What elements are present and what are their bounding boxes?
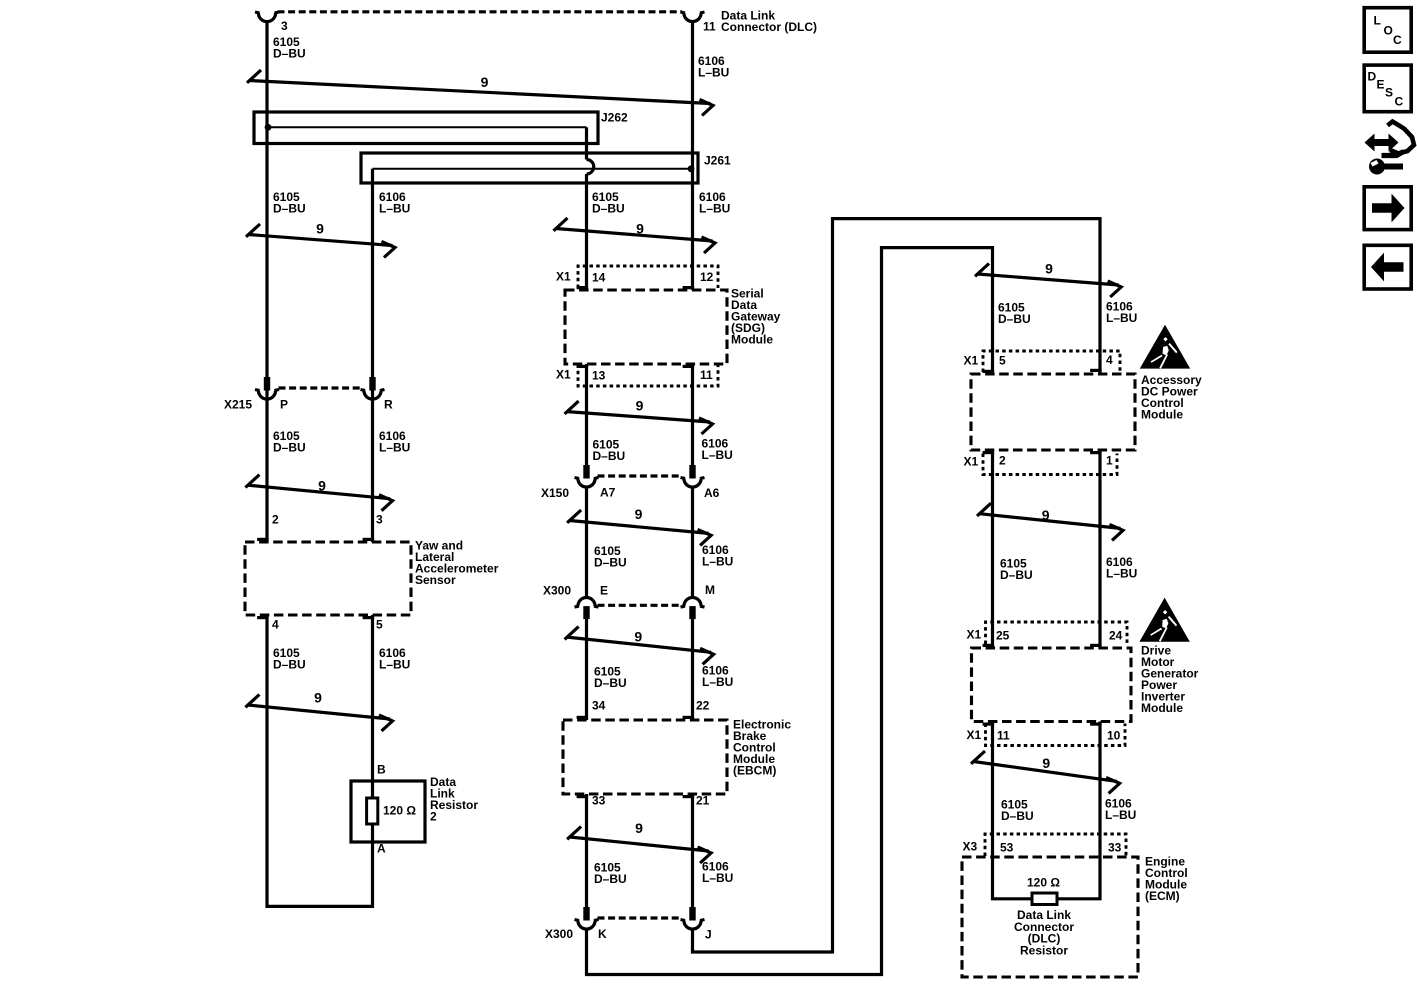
wire label 6105 D-BU (x267 below splices) [273, 190, 306, 216]
pin number 21 (EBCM) [696, 794, 710, 808]
pin number 33 (EBCM) [592, 794, 606, 808]
pin number 14 (SDG) [592, 271, 606, 285]
svg-text:Resistor: Resistor [430, 798, 478, 812]
connector strip X1 of ADPCM (pins 2,1) [983, 454, 1117, 475]
pin number 33 (ECM) [1108, 841, 1122, 855]
wire 6105 D-BU Yaw pin 4 down and to resistor bottom [267, 615, 373, 906]
label J261 [704, 154, 731, 168]
svg-text:9: 9 [636, 221, 644, 237]
pin number 13 (SDG) [592, 369, 606, 383]
svg-text:3: 3 [376, 513, 383, 527]
inline connector X300 pin E [575, 598, 599, 620]
wire 6106 L-BU down to ADPCM pin 4 [1098, 217, 1101, 373]
svg-text:D–BU: D–BU [273, 441, 306, 455]
value label 120 ohm (DLC resistor in ECM) [1027, 876, 1060, 890]
wire label 6106 L-BU (below DLC pin 11) [698, 54, 729, 80]
wire 6106 L-BU SDG pin 11 to X150 A6 [691, 364, 694, 470]
svg-text:X300: X300 [543, 584, 571, 598]
label Accessory DC Power Control Module [1141, 373, 1202, 422]
connector DLC pin 3 terminal [255, 12, 279, 22]
pin 2 terminal foot (ADPCM) [983, 451, 995, 454]
svg-text:9: 9 [636, 397, 644, 413]
twisted pair symbol 9 (X150 to X300) [567, 506, 711, 545]
wire label 6106 L-BU (ADPCM to Drive) [1106, 555, 1137, 581]
svg-text:14: 14 [592, 271, 606, 285]
svg-text:D–BU: D–BU [592, 202, 625, 216]
wire hop (insulated crossover) over J261 bus [587, 160, 594, 175]
svg-text:R: R [384, 398, 393, 412]
wire label 6105 D-BU (left, below DLC pin 3) [273, 35, 306, 61]
svg-text:5: 5 [999, 354, 1006, 368]
wire 6105 D-BU Drive pin 11 down into ECM to resistor [993, 722, 1034, 899]
inline connector X215 dashed link [279, 386, 362, 389]
resistor element 120 ohm (DLC resistor in ECM) [1032, 893, 1057, 905]
connector strip X1 of ADPCM (pins 5,4) [983, 351, 1120, 372]
wire label 6105 D-BU (X300 to EBCM) [594, 665, 627, 691]
wire label 6106 L-BU (Drive to ECM) [1105, 797, 1136, 823]
pin 24 terminal foot (Drive module) [1090, 644, 1102, 647]
pin letter R (X215) [384, 398, 393, 412]
high voltage warning triangle (Drive module) [1139, 598, 1189, 642]
wire 6105 D-BU X150 A7 to X300 E [585, 487, 588, 597]
svg-text:Module: Module [1141, 408, 1183, 422]
twisted pair symbol 9 (X300 to EBCM) [565, 627, 714, 665]
svg-text:P: P [280, 398, 288, 412]
pin 11 terminal foot (SDG) [683, 365, 695, 368]
label X300 (K/J row) [545, 927, 573, 941]
label X1 (SDG top) [556, 270, 571, 284]
icon: twisted wires with double arrow [1365, 122, 1415, 175]
svg-text:9: 9 [318, 477, 326, 493]
svg-text:L: L [1374, 14, 1381, 28]
pin letter J (X300) [705, 928, 712, 942]
svg-text:X1: X1 [556, 368, 571, 382]
navigation icon box back arrow [1364, 245, 1411, 289]
svg-text:X300: X300 [545, 927, 573, 941]
svg-text:L–BU: L–BU [702, 675, 733, 689]
svg-text:K: K [598, 927, 607, 941]
pin number 5 (Yaw sensor) [376, 618, 383, 632]
svg-text:L–BU: L–BU [1106, 567, 1137, 581]
navigation icon box DESC [1364, 65, 1411, 112]
inline connector X150 dashed link [598, 474, 682, 477]
svg-text:9: 9 [1042, 755, 1050, 771]
svg-text:Resistor: Resistor [1020, 944, 1068, 958]
pin 34 terminal foot (EBCM) [577, 716, 589, 719]
svg-text:13: 13 [592, 369, 606, 383]
module box: Accessory DC Power Control Module [971, 374, 1135, 450]
pin number 34 (EBCM) [592, 699, 606, 713]
wire 6106 L-BU EBCM pin 21 to X300 J [691, 794, 694, 912]
twisted pair symbol 9 (left pair below splices) [246, 221, 395, 258]
svg-text:22: 22 [696, 699, 710, 713]
splice J262 internal bus wire [267, 126, 587, 128]
svg-text:X3: X3 [963, 840, 978, 854]
svg-text:Module: Module [1141, 701, 1183, 715]
svg-text:X150: X150 [541, 486, 569, 500]
module box: Serial Data Gateway (SDG) [565, 290, 727, 364]
twisted pair symbol 9 (right column top pair) [975, 261, 1121, 297]
connector strip X1 of Drive module (pins 25,24) [986, 622, 1128, 644]
pin number 10 (Drive module) [1107, 729, 1121, 743]
svg-text:9: 9 [1042, 507, 1050, 523]
label Electronic Brake Control Module (EBCM) [733, 718, 791, 778]
label Engine Control Module (ECM) [1145, 855, 1188, 904]
wire 6105 D-BU from X300 K routed right and up to right column [587, 248, 993, 975]
svg-text:X1: X1 [964, 354, 979, 368]
pin number 1 (ADPCM) [1106, 454, 1113, 468]
inline connector X300 pin J [681, 907, 705, 929]
svg-text:D–BU: D–BU [273, 202, 306, 216]
svg-text:Connector (DLC): Connector (DLC) [721, 20, 817, 34]
pin 11 terminal foot (Drive module) [983, 722, 995, 725]
label X215 [224, 398, 252, 412]
pin letter K (X300) [598, 927, 607, 941]
svg-text:L–BU: L–BU [379, 658, 410, 672]
svg-text:D–BU: D–BU [593, 449, 626, 463]
pin number 11 (DLC) [703, 20, 716, 34]
label Yaw and Lateral Accelerometer Sensor [415, 539, 499, 588]
wire label 6105 D-BU (X150 to X300) [594, 544, 627, 570]
wire 6105 D-BU X300 E to EBCM pin 34 [585, 619, 588, 720]
svg-text:X1: X1 [967, 628, 982, 642]
svg-text:9: 9 [1045, 261, 1053, 277]
svg-text:2: 2 [999, 454, 1006, 468]
label X300 (E/M row) [543, 584, 571, 598]
wire label 6106 L-BU (EBCM to X300) [702, 860, 733, 886]
wire label 6106 L-BU (right column top) [1106, 300, 1137, 326]
connector strip X3 of ECM (pins 53,33) [985, 834, 1126, 856]
wire label 6105 D-BU (below Yaw) [273, 646, 306, 672]
svg-text:L–BU: L–BU [702, 448, 733, 462]
wire label 6106 L-BU (X300 to EBCM) [702, 664, 733, 690]
svg-text:(EBCM): (EBCM) [733, 764, 776, 778]
wire label 6105 D-BU (x586 below splices) [592, 190, 625, 216]
wire 6105 D-BU SDG pin 13 to X150 A7 [585, 364, 588, 470]
svg-text:11: 11 [700, 368, 713, 382]
label J262 [601, 111, 628, 125]
twisted pair symbol 9 (SDG to X150) [565, 397, 713, 434]
high voltage warning triangle (ADPCM) [1140, 325, 1190, 369]
svg-text:B: B [377, 763, 386, 777]
wire 6105 D-BU from DLC pin 3 down (x267) [265, 22, 268, 542]
label Serial Data Gateway (SDG) Module [731, 287, 781, 347]
twisted pair symbol 9 (X215 to Yaw sensor) [245, 475, 392, 511]
svg-text:A: A [377, 842, 386, 856]
wire label 6106 L-BU (X215 to Yaw) [379, 429, 410, 455]
splice J262 outer box [254, 112, 598, 144]
svg-text:5: 5 [376, 618, 383, 632]
label X1 (Drive module top) [967, 628, 982, 642]
pin 12 terminal foot (SDG) [683, 286, 695, 289]
svg-text:9: 9 [634, 628, 642, 644]
pin 4 terminal foot (Yaw sensor) [257, 616, 269, 619]
wire 6106 L-BU X300 M to EBCM pin 22 [691, 619, 694, 720]
inline connector X150 pin A7 [575, 465, 599, 487]
pin 33 terminal foot (EBCM) [577, 795, 589, 798]
svg-text:C: C [1393, 33, 1402, 47]
wire label 6105 D-BU (ADPCM to Drive) [1000, 557, 1033, 583]
svg-text:Module: Module [731, 333, 773, 347]
wire 6106 L-BU Yaw pin 5 down to resistor B [371, 615, 374, 800]
pin letter A6 (X150) [704, 486, 720, 500]
svg-text:L–BU: L–BU [1106, 311, 1137, 325]
wire 6105 D-BU down to ADPCM pin 5 [991, 246, 994, 374]
svg-text:25: 25 [996, 629, 1010, 643]
pin 21 terminal foot (EBCM) [683, 795, 695, 798]
svg-text:120 Ω: 120 Ω [1027, 876, 1060, 890]
svg-text:11: 11 [997, 729, 1010, 743]
pin number 3 (DLC) [281, 19, 288, 33]
wire 6106 L-BU X150 A6 to X300 M [691, 487, 694, 597]
svg-text:E: E [600, 584, 608, 598]
label X1 (Drive module bottom) [967, 728, 982, 742]
svg-text:J261: J261 [704, 154, 731, 168]
pin 4 terminal foot (ADPCM) [1090, 369, 1102, 372]
svg-text:D–BU: D–BU [594, 676, 627, 690]
pin number 11 (SDG) [700, 368, 713, 382]
resistor element 120 ohm (Data Link Resistor 2) [367, 798, 378, 824]
svg-text:D–BU: D–BU [594, 556, 627, 570]
pin number 2 (Yaw sensor) [272, 513, 279, 527]
svg-text:A6: A6 [704, 486, 720, 500]
svg-text:X215: X215 [224, 398, 252, 412]
pin 13 terminal foot (SDG) [577, 365, 589, 368]
pin 5 terminal foot (ADPCM) [983, 370, 995, 373]
pin 22 terminal foot (EBCM) [683, 716, 695, 719]
svg-text:33: 33 [1108, 841, 1122, 855]
pin letter B (Data Link Resistor 2) [377, 763, 386, 777]
label Data Link Resistor 2 [430, 775, 478, 824]
label X1 (SDG bottom) [556, 368, 571, 382]
svg-text:X1: X1 [967, 728, 982, 742]
wire label 6106 L-BU (X150 to X300) [702, 543, 733, 569]
svg-text:4: 4 [272, 618, 279, 632]
svg-text:L–BU: L–BU [1105, 808, 1136, 822]
pin letter M (X300) [705, 583, 715, 597]
pin number 3 (Yaw sensor) [376, 513, 383, 527]
wire 6105 D-BU continues to SDG pin 14 [585, 174, 588, 290]
svg-text:9: 9 [635, 506, 643, 522]
svg-text:J262: J262 [601, 111, 628, 125]
svg-text:D–BU: D–BU [1001, 809, 1034, 823]
inline connector X215 pin R [361, 377, 385, 399]
svg-text:S: S [1385, 86, 1393, 100]
splice J261 outer box [361, 153, 698, 183]
svg-text:D–BU: D–BU [998, 312, 1031, 326]
svg-text:L–BU: L–BU [699, 202, 730, 216]
pin number 12 (SDG) [700, 270, 714, 284]
wire 6106 L-BU from DLC pin 11 down (x692) [691, 22, 694, 290]
wire label 6106 L-BU (x692 below splices) [699, 190, 730, 216]
svg-text:D: D [1368, 70, 1377, 84]
pin 3 terminal foot (Yaw sensor) [363, 538, 375, 541]
wire label 6106 L-BU (SDG to X150) [702, 437, 733, 463]
connector DLC pin 11 terminal [681, 12, 705, 22]
navigation icon box forward arrow [1364, 187, 1411, 230]
svg-text:9: 9 [481, 74, 489, 90]
label Data Link Connector (DLC) [721, 9, 817, 34]
svg-text:2: 2 [272, 513, 279, 527]
twisted pair symbol 9 (Yaw to Data Link Resistor 2) [245, 690, 392, 732]
pin number 11 (Drive module) [997, 729, 1010, 743]
pin letter P (X215) [280, 398, 288, 412]
svg-text:L–BU: L–BU [379, 202, 410, 216]
svg-text:D–BU: D–BU [594, 872, 627, 886]
wire from resistor A down to bottom join [371, 824, 374, 908]
pin 2 terminal foot (Yaw sensor) [257, 538, 269, 541]
svg-text:O: O [1384, 24, 1393, 38]
pin letter A7 (X150) [600, 486, 616, 500]
pin 10 terminal foot (Drive module) [1090, 722, 1102, 725]
pin number 4 (ADPCM) [1106, 353, 1113, 367]
wire 6106 L-BU ADPCM pin 1 to Drive module pin 24 [1098, 450, 1101, 648]
svg-text:D–BU: D–BU [273, 47, 306, 61]
svg-text:E: E [1377, 78, 1385, 92]
svg-text:4: 4 [1106, 353, 1113, 367]
svg-text:12: 12 [700, 270, 714, 284]
pin 5 terminal foot (Yaw sensor) [363, 616, 375, 619]
svg-text:9: 9 [316, 221, 324, 237]
module box: Drive Motor Generator Power Inverter Module [972, 648, 1132, 722]
label X150 [541, 486, 569, 500]
component box: Data Link Resistor 2 [351, 781, 425, 842]
connector strip X1 of Drive module (pins 11,10) [986, 724, 1126, 746]
pin letter E (X300) [600, 584, 608, 598]
wire label 6105 D-BU (EBCM to X300) [594, 861, 627, 887]
svg-text:120 Ω: 120 Ω [383, 804, 416, 818]
svg-text:2: 2 [430, 810, 437, 824]
svg-text:L–BU: L–BU [698, 66, 729, 80]
wire label 6105 D-BU (Drive to ECM) [1001, 798, 1034, 824]
wire label 6106 L-BU (x372 below splices) [379, 190, 410, 216]
twisted pair symbol 9 (Drive module to ECM) [971, 751, 1120, 793]
label X3 (ECM) [963, 840, 978, 854]
wire label 6105 D-BU (right column top) [998, 301, 1031, 327]
pin 14 terminal foot (SDG) [577, 286, 589, 289]
svg-text:33: 33 [592, 794, 606, 808]
svg-text:Sensor: Sensor [415, 573, 456, 587]
svg-text:D–BU: D–BU [1000, 568, 1033, 582]
connector strip X1 of SDG (pins 13,11) [578, 364, 718, 386]
svg-text:L–BU: L–BU [702, 555, 733, 569]
twisted pair symbol 9 (DLC to splices) [247, 70, 713, 116]
pin number 24 (Drive module) [1109, 629, 1123, 643]
svg-text:X1: X1 [964, 455, 979, 469]
inline connector X215 pin P [255, 377, 279, 399]
wire label 6105 D-BU (X215 to Yaw) [273, 429, 306, 455]
label Data Link Connector (DLC) Resistor [1014, 908, 1074, 957]
svg-text:3: 3 [281, 19, 288, 33]
module box: Engine Control Module (ECM) [962, 857, 1138, 977]
svg-text:53: 53 [1000, 841, 1014, 855]
wire 6106 L-BU Drive pin 10 down into ECM to resistor [1056, 722, 1100, 899]
junction dot on wire at splice J262 [265, 124, 272, 131]
module box: Yaw and Lateral Accelerometer Sensor [245, 542, 411, 615]
junction dot on wire at splice J261 [688, 165, 695, 172]
label X1 (ADPCM top) [964, 354, 979, 368]
svg-text:1: 1 [1106, 454, 1113, 468]
svg-text:C: C [1395, 95, 1404, 109]
inline connector X150 pin A6 [681, 465, 705, 487]
wire 6105 D-BU ADPCM pin 2 to Drive module pin 25 [991, 450, 994, 648]
svg-text:M: M [705, 583, 715, 597]
module box: Electronic Brake Control Module (EBCM) [563, 720, 727, 794]
svg-text:24: 24 [1109, 629, 1123, 643]
svg-text:L–BU: L–BU [702, 871, 733, 885]
navigation icon box LOC [1364, 8, 1411, 53]
svg-text:A7: A7 [600, 486, 616, 500]
wire 6106 L-BU from splice J261 down (x372) [371, 169, 374, 542]
svg-text:9: 9 [635, 820, 643, 836]
inline connector X300 pin M [681, 598, 705, 620]
label X1 (ADPCM bottom) [964, 455, 979, 469]
svg-text:J: J [705, 928, 712, 942]
connector face: Data Link Connector (DLC) dashed line [278, 10, 683, 13]
wire 6105 D-BU EBCM pin 33 to X300 K [585, 794, 588, 912]
pin 25 terminal foot (Drive module) [983, 644, 995, 647]
label Drive Motor Generator Power Inverter Module [1141, 644, 1199, 716]
inline connector X300 pin K [575, 907, 599, 929]
wire 6105 D-BU from splice J262 down (x586) [585, 127, 588, 159]
svg-text:10: 10 [1107, 729, 1121, 743]
twisted pair symbol 9 (EBCM to X300 K/J) [567, 820, 711, 863]
svg-text:D–BU: D–BU [273, 658, 306, 672]
wire label 6105 D-BU (SDG to X150) [593, 438, 626, 464]
inline connector X300 dashed link (K/J) [598, 916, 682, 919]
svg-text:L–BU: L–BU [379, 441, 410, 455]
pin number 2 (ADPCM) [999, 454, 1006, 468]
svg-text:21: 21 [696, 794, 710, 808]
inline connector X300 dashed link (E/M) [598, 604, 682, 607]
splice J261 internal bus wire [373, 168, 693, 170]
pin number 4 (Yaw sensor) [272, 618, 279, 632]
svg-text:34: 34 [592, 699, 606, 713]
svg-text:X1: X1 [556, 270, 571, 284]
pin number 25 (Drive module) [996, 629, 1010, 643]
connector strip X1 of SDG (pins 14,12) [578, 266, 718, 288]
pin number 5 (ADPCM) [999, 354, 1006, 368]
svg-text:9: 9 [314, 690, 322, 706]
value label 120 ohm (Data Link Resistor 2) [383, 804, 416, 818]
pin number 22 (EBCM) [696, 699, 710, 713]
wire 6106 L-BU from X300 J routed right and up to right column [693, 219, 1101, 952]
twisted pair symbol 9 (ADPCM to Drive module) [977, 503, 1123, 540]
svg-text:11: 11 [703, 20, 716, 34]
svg-text:(ECM): (ECM) [1145, 889, 1180, 903]
wire label 6106 L-BU (below Yaw) [379, 646, 410, 672]
twisted pair symbol 9 (middle pair below splices) [554, 218, 716, 253]
pin letter A (Data Link Resistor 2) [377, 842, 386, 856]
pin 1 terminal foot (ADPCM) [1090, 451, 1102, 454]
pin number 53 (ECM) [1000, 841, 1014, 855]
